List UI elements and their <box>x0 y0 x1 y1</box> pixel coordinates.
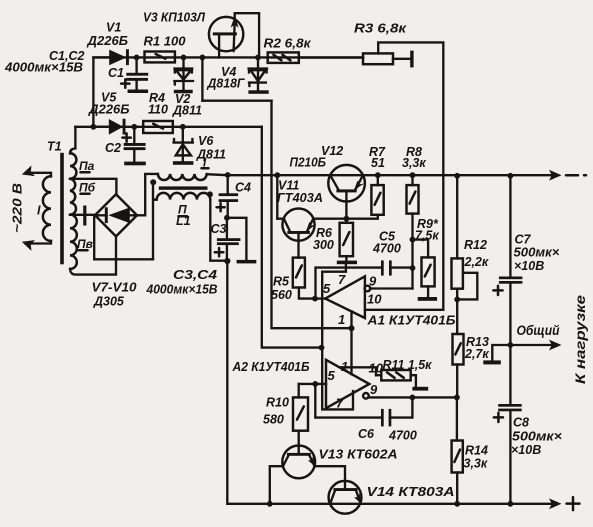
wire A1 pin1 lead down to A2 pin1 <box>350 311 352 374</box>
svg-text:C2: C2 <box>105 141 121 155</box>
transistor V12 collector diagonal with arrow <box>356 175 363 189</box>
svg-text:R11 1,5к: R11 1,5к <box>383 358 433 372</box>
wire A1 pin10 row to R3 line <box>365 309 443 311</box>
wire T1 primary bottom lead <box>30 241 51 244</box>
wire R8-R9 jog <box>413 240 429 258</box>
wire V11 base to R5 <box>297 234 299 258</box>
wire A2 pin9 to R14 junction <box>369 396 457 398</box>
wire R12 top lead <box>456 176 458 258</box>
transistor V11 diagonals <box>284 219 313 231</box>
transistor V12 base bar <box>336 189 356 192</box>
svg-text:R1 100: R1 100 <box>144 35 186 49</box>
node bottom rail <box>267 501 273 507</box>
wire C5 right <box>392 266 413 268</box>
wire main output rail y175 <box>207 174 558 175</box>
wire C6 right path <box>390 398 412 418</box>
svg-text:П210Б: П210Б <box>290 156 327 170</box>
wire zener reference bus x262 <box>262 127 322 348</box>
bridge diode bar <box>105 207 108 223</box>
transistor V12 circle <box>328 165 365 202</box>
svg-text:2,2к: 2,2к <box>464 255 489 269</box>
svg-text:R5: R5 <box>273 275 290 289</box>
chassis bar on center tap <box>83 206 86 226</box>
arrow mains top <box>20 165 35 179</box>
wire mid line y101 <box>202 100 271 102</box>
svg-text:×10В: ×10В <box>511 443 541 457</box>
svg-text:Д811: Д811 <box>172 104 202 118</box>
capacitor C1 <box>135 57 137 72</box>
wire L1 bottom right down to C3 node <box>210 200 227 261</box>
wire row2 <box>75 126 261 128</box>
svg-text:5: 5 <box>328 368 336 383</box>
svg-text:Д226Б: Д226Б <box>86 34 128 48</box>
svg-text:Общий: Общий <box>517 323 561 338</box>
node dots row1 <box>134 55 140 61</box>
node Obshchiy <box>508 342 514 348</box>
wire R7 top lead <box>377 175 379 185</box>
transistor V14 base bar <box>334 488 358 491</box>
wire T1 primary top lead <box>30 173 51 177</box>
node dots row2 <box>91 124 97 130</box>
svg-text:C3: C3 <box>211 222 227 236</box>
transistor V3 gate bar <box>213 32 237 35</box>
svg-text:3,3к: 3,3к <box>402 156 426 170</box>
resistor R13 <box>453 334 464 365</box>
resistor R2 <box>268 52 299 63</box>
op-amp A1 triangle <box>325 276 365 318</box>
node A1 pin1 <box>349 325 355 331</box>
wire A1 pin7 path <box>322 264 353 410</box>
plus sign C7 <box>493 286 502 295</box>
wire R13 bottom <box>456 365 458 398</box>
node L1 polarity dot top <box>150 179 156 185</box>
svg-text:R2 6,8к: R2 6,8к <box>264 37 312 51</box>
dash-dot after top arrow <box>566 174 586 177</box>
wire R14 top lead <box>456 397 458 440</box>
wire R3 right lead <box>393 58 410 60</box>
svg-text:2,7к: 2,7к <box>464 347 489 361</box>
resistor R5 <box>293 258 305 288</box>
wire V11 base row to V12 base and R7 <box>277 215 378 219</box>
wire T1 center tap to bridge left <box>70 214 96 216</box>
wire R10 bottom lead <box>298 431 300 453</box>
wire x227 vertical C3 to bottom rail <box>226 261 228 504</box>
svg-text:1: 1 <box>341 359 348 374</box>
svg-text:V3 КП103Л: V3 КП103Л <box>143 11 205 25</box>
svg-text:Д811: Д811 <box>196 148 226 162</box>
svg-text:Д305: Д305 <box>93 295 125 309</box>
resistor R9 <box>422 257 435 286</box>
svg-text:C3,C4: C3,C4 <box>173 268 217 282</box>
chassis bar R9 bottom <box>418 297 437 301</box>
wire R8 bottom column <box>411 214 413 289</box>
node R14 top <box>454 395 460 401</box>
plus sign C2 <box>122 133 130 141</box>
wire A2 pin5 <box>299 383 326 385</box>
wire R12-R13 column <box>456 299 458 334</box>
wire Obshchiy ground <box>492 345 510 360</box>
svg-text:V6: V6 <box>198 134 214 148</box>
transformer T1 secondary winding IIa <box>70 153 76 179</box>
wire V3 drain loop <box>235 13 259 57</box>
wire left vertical row1-row2 <box>92 57 94 126</box>
wire R9 bottom to chassis <box>427 286 429 296</box>
wire A1 pin5 <box>315 297 326 299</box>
svg-text:10: 10 <box>367 292 382 307</box>
resistor R12 <box>452 258 463 288</box>
svg-text:A1 К1УТ401Б: A1 К1УТ401Б <box>366 314 455 328</box>
transformer T1 core <box>60 153 64 264</box>
inductor L1 winding I top <box>158 174 207 180</box>
node A2 pin5 <box>312 381 318 387</box>
svg-text:C7: C7 <box>515 233 532 247</box>
wire bridge right corner to L1 top left <box>137 174 158 215</box>
transistor V13 diagonals <box>283 456 315 467</box>
svg-text:1: 1 <box>338 312 345 327</box>
plus sign bottom output <box>567 497 580 510</box>
transistor V13 circle <box>282 446 315 479</box>
bridge diode triangle <box>108 208 130 224</box>
svg-text:4700: 4700 <box>372 242 401 256</box>
svg-text:~220 В: ~220 В <box>11 183 25 233</box>
transistor V3 source arrow <box>234 22 235 51</box>
diode V5 <box>96 126 110 128</box>
node C3 bottom <box>224 258 230 264</box>
resistor R7 <box>371 185 383 215</box>
transistor V14 diagonals <box>330 491 360 504</box>
svg-text:9: 9 <box>370 382 378 397</box>
chassis bar Obshchiy <box>483 360 501 364</box>
svg-text:V1: V1 <box>106 21 121 35</box>
svg-text:4000мк×15В: 4000мк×15В <box>146 283 218 297</box>
capacitor C5 <box>381 260 384 275</box>
node C4-C3 <box>224 215 230 221</box>
wire V13 collector left to bottom rail <box>270 466 283 504</box>
chassis bar below C3 C4 midpoint <box>237 260 257 264</box>
transformer T1 secondary winding IIv <box>70 215 77 269</box>
zener V6 <box>182 127 184 141</box>
svg-text:Д818Г: Д818Г <box>207 77 246 91</box>
svg-text:Пб: Пб <box>79 181 96 195</box>
zener V2 <box>182 57 184 67</box>
resistor R3 <box>363 53 393 64</box>
wire T1 tap IIa-IIb to bridge top <box>70 179 116 195</box>
arrow mains bottom <box>20 236 35 250</box>
svg-text:7,5к: 7,5к <box>415 229 439 243</box>
wire C3-C4 midpoint to chassis <box>227 218 247 260</box>
node R12 bottom <box>454 297 460 303</box>
wire R11 right to chassis <box>411 375 416 386</box>
svg-text:300: 300 <box>313 238 334 252</box>
svg-text:К нагрузке: К нагрузке <box>572 295 588 384</box>
capacitor C7 <box>499 277 523 280</box>
capacitor C8 <box>498 404 522 407</box>
wire row1 to mid line x202 <box>201 57 203 100</box>
arrow Obshchiy output <box>510 344 554 346</box>
svg-text:V14 КТ803А: V14 КТ803А <box>367 485 455 499</box>
wire T1 secondary top lead to row2 <box>70 127 75 154</box>
wire bridge diode leads <box>98 214 135 216</box>
chassis bar R11 right <box>412 387 428 391</box>
wire C7 top lead <box>509 176 511 276</box>
svg-text:C8: C8 <box>513 416 529 430</box>
wire A2 pin10 <box>340 367 376 375</box>
wire C7 bottom lead <box>509 284 511 345</box>
wire R14 bottom lead <box>456 473 458 504</box>
resistor R8 <box>407 185 419 214</box>
resistor R4 <box>143 121 173 133</box>
wire R11 left lead <box>376 374 381 376</box>
svg-text:4700: 4700 <box>388 429 417 443</box>
wire C5 left <box>316 268 382 299</box>
zener V4 <box>257 57 259 67</box>
chassis bar R3 right <box>410 51 413 68</box>
resistor R14 <box>452 441 463 473</box>
svg-text:R3 6,8к: R3 6,8к <box>354 22 407 36</box>
transistor V3 circle <box>209 17 243 51</box>
svg-text:R10: R10 <box>266 396 289 410</box>
wire row1 top rail <box>93 56 363 58</box>
inductor L1 core bar <box>159 186 208 189</box>
plus sign C1 <box>121 79 129 87</box>
svg-text:Па: Па <box>79 159 95 173</box>
chassis bar A1 pin7 R6 <box>337 261 357 265</box>
svg-text:10: 10 <box>369 361 384 376</box>
wire R6 bottom to chassis bar <box>345 256 347 261</box>
svg-text:500мк×: 500мк× <box>512 430 563 444</box>
bridge rectifier V7-V10 diamond <box>95 194 137 236</box>
capacitor C2 <box>133 127 135 143</box>
svg-text:C6: C6 <box>358 427 375 441</box>
arrow minus output top <box>549 170 562 181</box>
capacitor C3 <box>226 218 228 238</box>
svg-text:L1: L1 <box>176 214 191 228</box>
wire bottom rail <box>228 503 554 505</box>
wire R12 wiper loop <box>457 273 477 300</box>
svg-text:500мк×: 500мк× <box>514 246 561 260</box>
wire C8 top lead <box>509 345 511 404</box>
wire R2 to R3 <box>299 56 363 58</box>
svg-text:560: 560 <box>271 288 292 302</box>
svg-text:ГТ403А: ГТ403А <box>277 191 323 205</box>
plus sign C4 <box>217 203 225 211</box>
svg-text:R12: R12 <box>464 238 487 252</box>
inductor L1 winding II bottom <box>153 193 210 200</box>
svg-text:7: 7 <box>336 396 344 411</box>
wire V12 base lead <box>345 192 347 223</box>
wire R12 bottom lead <box>456 289 458 300</box>
transistor V11 base bar <box>287 231 310 234</box>
wire V13 emitter to V14 base <box>314 466 345 488</box>
op-amp A2 triangle <box>326 360 369 408</box>
wire A1 pin9 <box>370 287 413 289</box>
diode V1 <box>96 56 110 58</box>
svg-text:C4: C4 <box>235 181 251 195</box>
svg-text:R14: R14 <box>465 444 488 458</box>
node V12 base <box>344 216 350 222</box>
resistor R10 <box>293 397 308 430</box>
transistor V3 gate lead <box>218 35 220 57</box>
svg-text:V7-V10: V7-V10 <box>92 281 137 295</box>
svg-text:Т1: Т1 <box>47 140 62 154</box>
wire bridge left corner down to L1 bottom left <box>94 217 153 260</box>
transistor V13 base bar <box>287 453 311 456</box>
svg-text:51: 51 <box>371 156 385 170</box>
transistor V12 emitter diagonal <box>330 175 338 189</box>
svg-text:Пв: Пв <box>77 237 93 251</box>
node dots main rail <box>225 172 231 178</box>
svg-text:9: 9 <box>369 274 377 289</box>
svg-text:A2 К1УТ401Б: A2 К1УТ401Б <box>232 360 310 374</box>
svg-text:110: 110 <box>148 103 168 117</box>
svg-text:V13 КТ602А: V13 КТ602А <box>319 448 398 462</box>
transformer T1 primary winding I <box>43 176 51 241</box>
node zener bus junction <box>319 345 325 351</box>
plus sign C3 <box>215 248 224 256</box>
svg-text:4000мк×15В: 4000мк×15В <box>4 61 83 75</box>
resistor R11 <box>381 370 410 380</box>
transistor V11 circle <box>282 209 314 241</box>
node A1 pin5 <box>312 296 318 302</box>
svg-text:×10В: ×10В <box>514 259 544 273</box>
node R8 column <box>410 237 416 243</box>
wire x271 vertical to A1 pin1 row <box>272 101 352 329</box>
wire R8 top lead <box>411 175 413 185</box>
resistor R6 <box>340 223 353 256</box>
wire R3 tap line <box>378 42 443 309</box>
wire R5 bottom to A1 pin5 <box>299 288 315 299</box>
capacitor C6 <box>381 409 384 427</box>
wire C6 left path <box>315 384 381 418</box>
wire T1 secondary bottom lead <box>70 236 116 275</box>
node C6 right <box>410 395 416 401</box>
resistor R1 <box>145 52 175 63</box>
svg-text:Д226Б: Д226Б <box>88 103 130 117</box>
svg-text:580: 580 <box>263 413 284 427</box>
svg-text:3,3к: 3,3к <box>464 457 488 471</box>
arrow plus output bottom <box>549 498 562 509</box>
transistor V14 circle <box>329 481 362 514</box>
wire R10 top lead <box>298 384 300 398</box>
node L1 polarity dot bottom <box>207 191 213 197</box>
svg-text:C1: C1 <box>108 66 124 80</box>
plus sign C8 <box>494 413 503 422</box>
svg-text:7: 7 <box>338 272 346 287</box>
op-amp A1 output bubble <box>365 286 371 292</box>
transformer T1 secondary winding IIb <box>70 179 76 215</box>
svg-text:5: 5 <box>323 281 331 296</box>
op-amp A2 output bubble <box>363 393 369 399</box>
wire L1 bottom-left vertical <box>152 183 154 259</box>
svg-text:I: I <box>37 204 41 218</box>
capacitor C4 <box>227 175 229 193</box>
wire V11 rail drop <box>276 175 278 219</box>
wire C8 bottom lead <box>509 411 511 504</box>
